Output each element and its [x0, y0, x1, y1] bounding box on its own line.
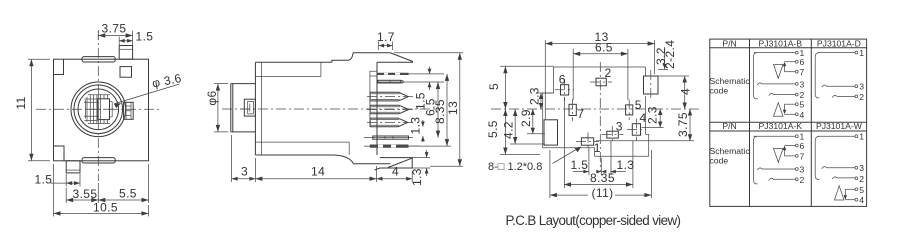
top shield lug [82, 57, 115, 62]
svg-text:1: 1 [859, 132, 864, 142]
svg-text:2.3: 2.3 [528, 87, 542, 105]
svg-text:3: 3 [859, 163, 864, 173]
svg-text:code: code [710, 86, 729, 96]
pad 6 [555, 73, 574, 102]
svg-text:6: 6 [559, 73, 566, 87]
table header texts row2 [722, 121, 862, 131]
wire: pins 6-7 connector K [784, 147, 786, 156]
pin 4 B [785, 113, 796, 115]
pin 2 K with contact [769, 178, 796, 180]
svg-text:7: 7 [800, 151, 805, 161]
jack center pin rect [86, 94, 116, 124]
svg-text:7: 7 [800, 67, 805, 77]
pin 3 side (bullet) [367, 92, 414, 101]
wire: sleeve common B [754, 53, 758, 99]
wire: pins 5-4 connector B [784, 104, 786, 113]
side contact block right [124, 102, 134, 119]
pin bases at body exit [370, 71, 377, 127]
dim 3.75 layout right [596, 109, 694, 141]
dim 5.5 layout left [486, 109, 540, 155]
svg-text:11: 11 [14, 96, 28, 109]
svg-text:2: 2 [859, 174, 864, 184]
svg-text:3: 3 [616, 119, 623, 133]
wire: sleeve common D [815, 53, 819, 98]
top-left corner notch [54, 59, 64, 74]
dim 4 bottom [377, 165, 413, 183]
dim 4 layout right [658, 76, 693, 109]
dim 4.2 layout left [502, 109, 546, 144]
schematic PJ3101A-K [754, 132, 805, 185]
dim 3.2 layout right [654, 47, 668, 70]
svg-text:P.C.B Layout(copper-sided view: P.C.B Layout(copper-sided view) [506, 213, 682, 228]
wire: sleeve common W [815, 136, 819, 179]
barrel nub [240, 99, 258, 116]
dim phi6 left [205, 84, 228, 132]
component outline layout [543, 67, 649, 156]
svg-text:1.3: 1.3 [617, 158, 635, 172]
pin 7 K [785, 155, 796, 157]
caption text [506, 213, 682, 228]
bottom DC pin lower (hatched) [364, 145, 420, 148]
small window top-right [120, 67, 132, 78]
svg-text:4: 4 [859, 195, 864, 205]
bottom-left pin [66, 161, 80, 173]
svg-text:5: 5 [635, 98, 642, 112]
table grid [710, 39, 867, 206]
svg-text:5: 5 [800, 100, 805, 110]
dim 8.35 right [410, 74, 451, 146]
dim 2-2.4 layout right [663, 40, 677, 69]
dim 1.3 pins right [409, 117, 425, 142]
pin 1 side (flat hatched) [377, 73, 444, 75]
dim 1.5 layout bottom [571, 141, 635, 175]
jack inner circle [78, 89, 119, 130]
pad 2 [590, 66, 612, 86]
dim 2.3 layout left [528, 87, 554, 109]
svg-text:3.75: 3.75 [102, 22, 127, 36]
svg-text:1.5: 1.5 [571, 158, 589, 172]
schematic PJ3101A-W [815, 132, 864, 206]
svg-text:3: 3 [800, 79, 805, 89]
dim 6.5 layout top [573, 41, 628, 101]
svg-text:6: 6 [800, 57, 805, 67]
dim 1.7 top [377, 30, 395, 50]
svg-text:5: 5 [859, 185, 864, 195]
pin 4 side (bullet) [367, 105, 414, 114]
dim 2.3 layout right [642, 106, 664, 127]
svg-text:1: 1 [594, 141, 601, 155]
dim 11 left [14, 59, 50, 161]
dim (11) layout bottom [550, 150, 652, 200]
pin 5 B [785, 103, 796, 105]
pin 6 B [785, 61, 796, 63]
svg-text:(11): (11) [592, 186, 614, 200]
svg-text:P/N: P/N [722, 121, 736, 131]
switch triangle K [774, 149, 784, 163]
pin 2 side (flat) [378, 80, 444, 83]
side body inner step lines [255, 62, 349, 155]
pin 2 B with contact [769, 93, 796, 95]
pad 5 [626, 98, 642, 120]
svg-text:PJ3101A-K: PJ3101A-K [759, 121, 803, 131]
dim 14 bottom [255, 165, 376, 183]
schematic code label row1 [710, 76, 751, 96]
svg-text:3: 3 [859, 82, 864, 92]
svg-text:4: 4 [392, 165, 399, 179]
bottom bent pin wedge [375, 158, 413, 170]
label 8-sq 1.2*0.8 with leader [488, 147, 581, 173]
wire: layout horizontal centerline [491, 108, 700, 110]
dim 3.55 bottom [66, 183, 98, 203]
svg-text:6.5: 6.5 [595, 41, 613, 55]
pin 4 W [845, 199, 855, 201]
svg-text:code: code [710, 156, 729, 166]
svg-text:4.2: 4.2 [502, 121, 516, 139]
svg-text:1: 1 [859, 48, 864, 58]
wire: layout vertical centerline [599, 62, 601, 172]
svg-text:PJ3101A-W: PJ3101A-W [816, 121, 863, 131]
jack middle circle [74, 85, 123, 134]
dim 1.3 wedge right [410, 150, 430, 186]
svg-text:2.9: 2.9 [519, 109, 533, 127]
wire: vertical centerline front view [97, 30, 99, 181]
barrel front face [231, 84, 256, 132]
pin 3 D with contact [822, 85, 855, 87]
pin 1 D [818, 52, 855, 54]
svg-text:3.55: 3.55 [73, 187, 98, 201]
svg-text:4: 4 [800, 110, 805, 120]
schematic PJ3101A-D [815, 48, 864, 102]
svg-text:1.3: 1.3 [410, 168, 424, 186]
svg-text:8-□ 1.2*0.8: 8-□ 1.2*0.8 [488, 161, 542, 173]
dim 3.75 top [98, 22, 132, 46]
dim 1.5 bottom-left [35, 173, 81, 187]
label dia 3.6 with leader [114, 71, 183, 108]
svg-text:8.35: 8.35 [590, 171, 615, 185]
switch triangle bottom B [774, 103, 784, 117]
svg-text:Schematic: Schematic [710, 76, 751, 86]
svg-text:3: 3 [800, 165, 805, 175]
wire: horizontal centerline front view [36, 108, 162, 110]
bottom shield lug [82, 158, 115, 163]
svg-text:1.7: 1.7 [377, 30, 395, 44]
pin 2 D with contact [832, 95, 855, 97]
svg-text:5.5: 5.5 [486, 120, 500, 138]
svg-text:Schematic: Schematic [710, 146, 751, 156]
bottom-left corner notch [54, 146, 65, 161]
dim 3 bottom [232, 135, 256, 182]
svg-text:2: 2 [800, 175, 805, 185]
switch triangle W [835, 186, 845, 200]
pin 3 B with contact [757, 83, 795, 85]
svg-text:1.5: 1.5 [35, 173, 53, 187]
pin 7 B [785, 71, 796, 73]
svg-text:1.3: 1.3 [409, 117, 423, 135]
dim 10.5 bottom [54, 164, 149, 217]
dim 2.9 layout left [519, 109, 545, 134]
svg-text:1.5: 1.5 [136, 30, 154, 44]
pin 1 W [818, 135, 855, 137]
jack outer circle [71, 82, 126, 137]
pad 7 [569, 99, 584, 121]
svg-text:PJ3101A-B: PJ3101A-B [759, 38, 803, 48]
dim 6.5 right [424, 82, 441, 138]
pad 4 [627, 111, 647, 141]
svg-text:4: 4 [679, 88, 693, 95]
wire: horizontal centerline side view [222, 108, 440, 110]
svg-text:13: 13 [446, 101, 460, 115]
switch triangle top B [774, 65, 784, 79]
svg-text:5: 5 [487, 83, 501, 90]
pin 3 W with contact [822, 167, 855, 169]
dim 5 layout left [487, 66, 554, 109]
top-right tab [119, 46, 132, 60]
side body outline [255, 53, 412, 164]
dim 8.35 layout bottom [564, 97, 633, 188]
svg-text:2: 2 [859, 92, 864, 102]
dim 5.5 bottom [98, 164, 148, 203]
wire: pins 6-7 connector B [784, 63, 786, 72]
schematic code label row2 [710, 146, 751, 166]
svg-text:2.3: 2.3 [645, 106, 659, 124]
svg-text:φ6: φ6 [205, 90, 219, 105]
svg-text:7: 7 [577, 107, 584, 121]
jack cavity silhouette [84, 95, 112, 124]
pin 2 W with contact [832, 177, 855, 179]
pad shield left [544, 120, 558, 145]
svg-text:3: 3 [241, 165, 248, 179]
dim 13 layout top [545, 30, 654, 120]
svg-text:14: 14 [311, 165, 325, 179]
pin 1 K [754, 135, 796, 137]
svg-text:2: 2 [800, 90, 805, 100]
svg-text:3.75: 3.75 [676, 112, 690, 137]
pin 5 side (bullet) [367, 118, 414, 127]
schematic PJ3101A-B [754, 48, 805, 120]
table header texts row1 [722, 38, 860, 48]
wire: sleeve common K [754, 136, 758, 184]
pad mount right [644, 70, 659, 99]
svg-text:6: 6 [800, 141, 805, 151]
svg-text:10.5: 10.5 [93, 201, 118, 215]
pad 3 [602, 119, 624, 143]
dim 1.5 top [119, 30, 153, 46]
wire: pins 5-4 connector W [844, 189, 846, 198]
dim 1.5 right [414, 67, 432, 111]
connector body front outline [54, 59, 149, 161]
svg-text:2: 2 [605, 66, 612, 80]
bottom DC pin upper (outline) [364, 136, 413, 139]
svg-text:P/N: P/N [722, 38, 736, 48]
pin 5 W [845, 188, 855, 190]
svg-text:2-2.4: 2-2.4 [663, 40, 677, 69]
pin 6 K [785, 145, 796, 147]
svg-text:PJ3101A-D: PJ3101A-D [817, 38, 861, 48]
dim 13 right [394, 53, 463, 166]
pad 1 [576, 133, 601, 156]
pin 1 B [754, 52, 796, 54]
svg-text:8.35: 8.35 [433, 99, 447, 124]
svg-text:5.5: 5.5 [119, 187, 137, 201]
pin 3 K with contact [757, 168, 795, 170]
